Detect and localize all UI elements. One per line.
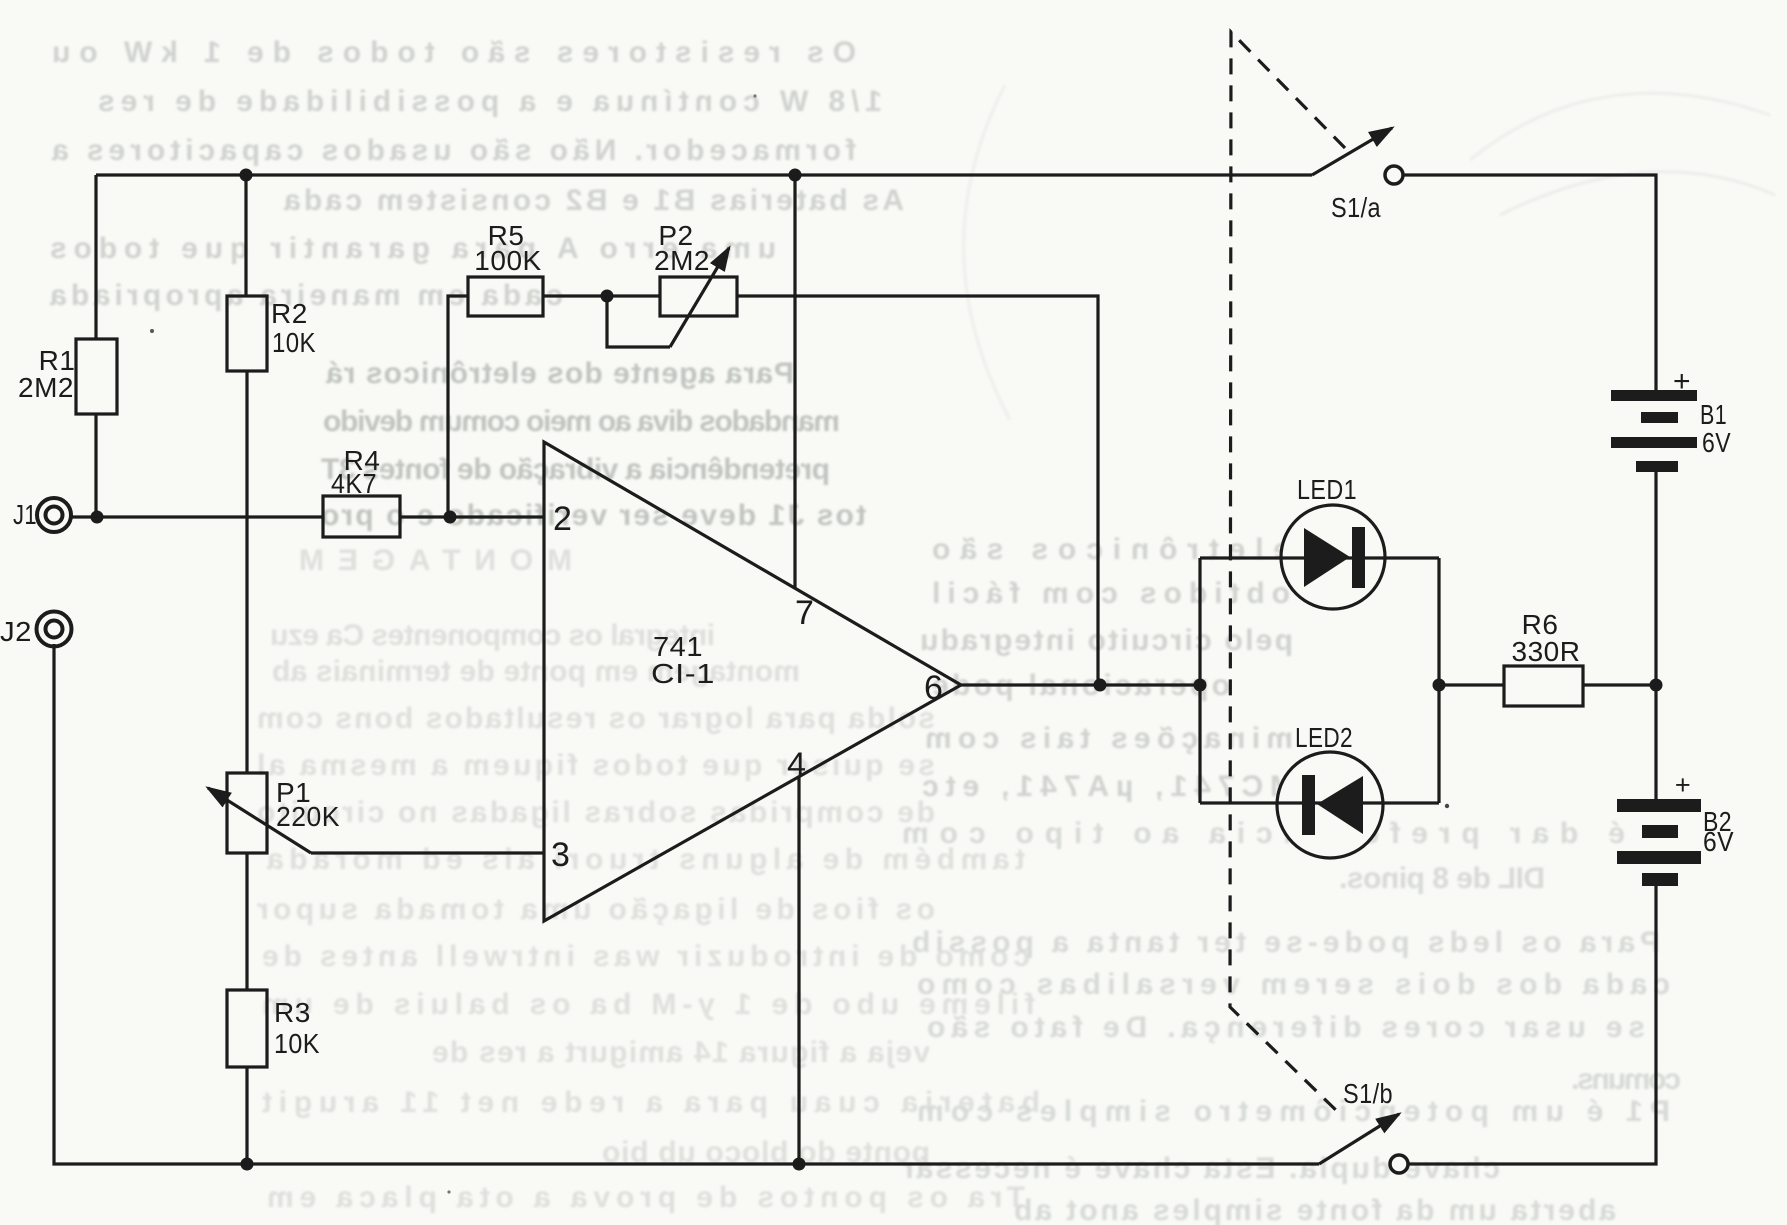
wire R5 left lead and drop to pin2 node bbox=[448, 296, 468, 517]
LED LED2 symbol bbox=[1302, 775, 1363, 835]
wire LED block right bbox=[1437, 558, 1440, 803]
wire top rail right to B1 bbox=[1403, 175, 1656, 390]
wire B2 to bottom rail bbox=[1408, 886, 1656, 1164]
svg-text:montagem em ponte de terminais: montagem em ponte de terminais ab bbox=[270, 655, 800, 688]
wire output pin 6 bbox=[961, 683, 1200, 686]
potentiometer P2 body bbox=[660, 277, 737, 316]
svg-text:J1: J1 bbox=[13, 499, 37, 530]
switch S1/b contact bbox=[1390, 1155, 1408, 1173]
svg-text:220K: 220K bbox=[276, 801, 340, 832]
potentiometer P1 wiper arrow bbox=[208, 788, 311, 853]
svg-text:cada dos dois serem versalibas: cada dos dois serem versalibas como bbox=[915, 968, 1670, 1001]
switch S1 mechanical link (dashed) bbox=[1230, 32, 1345, 1117]
wire LED block to R6 bbox=[1439, 683, 1504, 686]
wire LED block left bbox=[1198, 558, 1201, 803]
node R5/P2 junction bbox=[601, 290, 614, 303]
resistor R5 bbox=[468, 277, 543, 316]
battery B1 bbox=[1611, 390, 1697, 472]
resistor R1 bbox=[76, 339, 117, 414]
resistor R3 bbox=[227, 990, 267, 1067]
node feedback junction bbox=[1094, 679, 1107, 692]
svg-text:6V: 6V bbox=[1703, 826, 1734, 857]
svg-text:S1/a: S1/a bbox=[1331, 192, 1381, 223]
wire pin 7 supply bbox=[793, 175, 796, 588]
svg-text:mandados diva ao meio comum de: mandados diva ao meio comum devido bbox=[321, 405, 840, 438]
jack J2 bbox=[37, 612, 72, 647]
switch S1/a contact bbox=[1385, 166, 1403, 184]
svg-text:LED1: LED1 bbox=[1297, 474, 1357, 505]
wire R6 to right rail bbox=[1583, 683, 1656, 686]
wire LED2 branch bbox=[1200, 801, 1439, 804]
battery B2 bbox=[1617, 799, 1701, 886]
svg-text:R3: R3 bbox=[274, 997, 311, 1028]
potentiometer P1 body bbox=[227, 773, 267, 853]
wire top rail left bbox=[96, 173, 1312, 176]
node right rail R6 bbox=[1650, 679, 1663, 692]
wire R5 to P2 bbox=[543, 294, 660, 297]
wire J1 to R4 bbox=[70, 515, 323, 518]
resistor R2 bbox=[227, 296, 267, 371]
wire LED1 branch bbox=[1200, 556, 1439, 559]
svg-text:6: 6 bbox=[924, 669, 943, 707]
svg-text:2M2: 2M2 bbox=[18, 372, 74, 403]
svg-text:2: 2 bbox=[553, 500, 572, 538]
wire P2 wiper tie bbox=[607, 296, 670, 347]
svg-text:S1/b: S1/b bbox=[1343, 1078, 1393, 1109]
node top rail pin7 tap bbox=[789, 169, 802, 182]
wire P1 to R3 bbox=[245, 853, 248, 990]
node pin2 junction bbox=[444, 511, 457, 524]
svg-text:pelo circuito integradu: pelo circuito integradu bbox=[918, 624, 1293, 657]
node J1 junction bbox=[91, 511, 104, 524]
node LED block left junction bbox=[1194, 679, 1207, 692]
svg-text:B1: B1 bbox=[1700, 399, 1727, 430]
svg-text:7: 7 bbox=[795, 594, 814, 632]
jack J1 bbox=[37, 498, 71, 532]
svg-text:+: + bbox=[1673, 365, 1691, 398]
svg-text:100K: 100K bbox=[474, 245, 541, 276]
svg-text:se quiser que todos fiquem a m: se quiser que todos fiquem a mesma al bbox=[255, 749, 935, 782]
wire bottom rail left bbox=[54, 644, 1319, 1164]
wire P2 to feedback column bbox=[737, 296, 1098, 685]
wire B1 to B2 bbox=[1654, 472, 1657, 799]
svg-text:3: 3 bbox=[551, 836, 570, 874]
node bottom rail pin4 bbox=[793, 1158, 806, 1171]
svg-text:10K: 10K bbox=[274, 1028, 320, 1059]
svg-text:chave dupla. Esta chave é nece: chave dupla. Esta chave é necessár bbox=[900, 1152, 1500, 1185]
resistor R4 bbox=[323, 496, 400, 537]
svg-text:6V: 6V bbox=[1702, 427, 1731, 458]
switch S1/b arm bbox=[1319, 1114, 1399, 1164]
svg-text:CI-1: CI-1 bbox=[651, 658, 715, 689]
svg-text:330R: 330R bbox=[1512, 636, 1581, 667]
wire R3 to bottom rail bbox=[245, 1067, 248, 1164]
svg-text:+: + bbox=[1675, 770, 1691, 800]
svg-text:DIL de 8 pinos.: DIL de 8 pinos. bbox=[1337, 862, 1545, 895]
svg-text:Para agente dos eletrônicos rá: Para agente dos eletrônicos rá bbox=[324, 357, 794, 390]
svg-text:1/8 W contínua e a possibilida: 1/8 W contínua e a possibilidade de res bbox=[96, 85, 882, 118]
node top rail R2 tap bbox=[240, 169, 253, 182]
svg-text:aberta um da fonte simples ano: aberta um da fonte simples anot ab bbox=[1012, 1194, 1616, 1225]
svg-text:se usar cores diferença. De fa: se usar cores diferença. De fato são bbox=[925, 1011, 1645, 1044]
wire pin 3 to P1 wiper bbox=[311, 851, 544, 854]
svg-text:solda para lograr os resultado: solda para lograr os resultados bons com bbox=[255, 702, 935, 735]
LED LED1 symbol bbox=[1304, 527, 1365, 588]
wire R2 column top bbox=[244, 175, 247, 296]
wire R2 to P1 bbox=[245, 371, 248, 773]
svg-text:comuns.: comuns. bbox=[1569, 1063, 1681, 1096]
LED LED2 envelope bbox=[1277, 752, 1383, 858]
node bottom rail R3 bbox=[241, 1158, 254, 1171]
svg-text:2M2: 2M2 bbox=[654, 245, 710, 276]
svg-text:LED2: LED2 bbox=[1295, 722, 1353, 753]
wire R4 to pin 2 bbox=[400, 515, 544, 518]
svg-text:As baterias B1 e B2 consistem: As baterias B1 e B2 consistem cada bbox=[282, 184, 904, 217]
node LED block right junction bbox=[1433, 679, 1446, 692]
svg-text:10K: 10K bbox=[272, 327, 316, 358]
LED LED1 envelope bbox=[1281, 505, 1385, 609]
svg-text:R2: R2 bbox=[271, 298, 308, 329]
svg-text:J2: J2 bbox=[0, 616, 32, 647]
svg-text:P1 é um potenciômetro simples: P1 é um potenciômetro simples com bbox=[915, 1095, 1670, 1128]
wire R1 column top bbox=[94, 175, 97, 339]
op-amp U1 (741 CI-1) bbox=[544, 442, 961, 921]
svg-text:4K7: 4K7 bbox=[331, 468, 377, 499]
svg-text:4: 4 bbox=[787, 746, 806, 784]
svg-text:os fios de ligação uma tomada: os fios de ligação uma tomada supor bbox=[255, 893, 935, 926]
switch S1/a arm bbox=[1312, 128, 1392, 175]
potentiometer P2 wiper arrow bbox=[670, 248, 729, 347]
wire R1 to J1 node bbox=[94, 414, 97, 517]
resistor R6 bbox=[1504, 666, 1583, 706]
svg-text:integral os componentes Ca ezu: integral os componentes Ca ezu bbox=[268, 619, 715, 652]
svg-text:veja a figura 14 amigurt a res: veja a figura 14 amigurt a res de bbox=[430, 1036, 930, 1069]
svg-text:de compridas sobras ligadas no: de compridas sobras ligadas no circuito bbox=[255, 796, 935, 829]
svg-text:MONTAGEM: MONTAGEM bbox=[291, 544, 572, 577]
wire pin 4 supply bbox=[797, 777, 800, 1164]
svg-text:Para os leds pode-se ter tanta: Para os leds pode-se ter tanta a possib bbox=[910, 926, 1660, 959]
